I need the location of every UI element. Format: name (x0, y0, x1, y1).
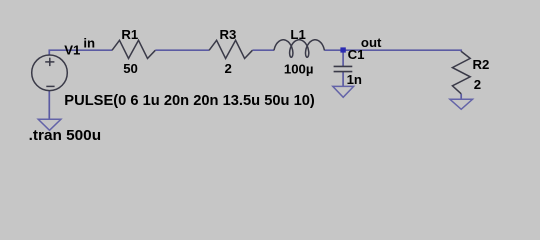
wire: V1 top to R1 (node in) (49, 50, 112, 55)
wire: R3 to L1 (252, 49, 274, 51)
V1 minus sign (46, 85, 54, 87)
node junction (out) (340, 47, 345, 52)
resistor R2 (452, 51, 470, 93)
wire: junction to C1 top plate (342, 53, 344, 67)
svg-text:100µ: 100µ (284, 61, 314, 76)
svg-text:2: 2 (474, 77, 481, 92)
svg-text:1n: 1n (347, 72, 362, 87)
svg-text:in: in (83, 36, 95, 51)
svg-text:L1: L1 (290, 27, 305, 42)
wire: C1 bottom plate to ground (342, 72, 344, 87)
voltage source V1 (32, 55, 68, 91)
svg-text:C1: C1 (348, 47, 365, 62)
ground (R2) (450, 99, 473, 109)
capacitor C1 plates (334, 66, 353, 71)
svg-text:.tran 500u: .tran 500u (29, 127, 102, 144)
wire: R1 to R3 (155, 49, 209, 51)
resistor R3 (209, 40, 252, 58)
inductor L1 (274, 40, 324, 58)
svg-text:R1: R1 (121, 27, 138, 42)
wire: L1 to R2 bend (node out) (324, 50, 461, 52)
svg-text:R2: R2 (473, 57, 490, 72)
svg-text:2: 2 (225, 61, 232, 76)
wire: R2 bottom stub (460, 94, 462, 100)
svg-text:R3: R3 (220, 27, 237, 42)
svg-text:V1: V1 (64, 43, 80, 58)
ground (V1) (38, 119, 61, 130)
wire: V1 bottom to ground (48, 91, 50, 120)
svg-text:PULSE(0 6 1u 20n 20n 13.5u 50u: PULSE(0 6 1u 20n 20n 13.5u 50u 10) (64, 92, 314, 109)
svg-text:50: 50 (123, 61, 138, 76)
resistor R1 (112, 40, 155, 58)
V1 plus sign (45, 58, 54, 66)
ground (C1) (333, 86, 354, 97)
